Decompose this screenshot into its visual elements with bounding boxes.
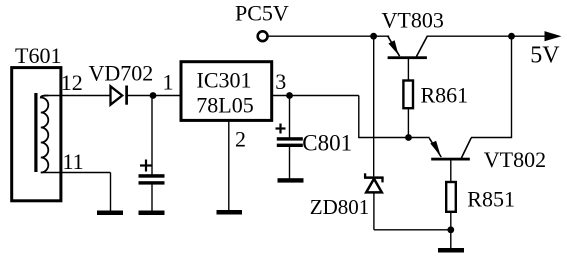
svg-text:R851: R851: [467, 186, 515, 211]
svg-text:12: 12: [61, 70, 83, 95]
svg-text:11: 11: [63, 149, 84, 174]
svg-text:VT802: VT802: [484, 147, 546, 172]
svg-text:ZD801: ZD801: [310, 195, 370, 219]
svg-text:T601: T601: [15, 43, 61, 68]
svg-text:IC301: IC301: [197, 67, 252, 92]
svg-text:2: 2: [235, 126, 246, 151]
svg-text:C801: C801: [302, 131, 352, 156]
svg-text:VT803: VT803: [382, 8, 444, 33]
svg-text:3: 3: [275, 69, 286, 94]
svg-text:5V: 5V: [530, 43, 560, 69]
svg-text:R861: R861: [421, 83, 469, 108]
svg-text:1: 1: [163, 69, 174, 94]
svg-text:PC5V: PC5V: [235, 1, 289, 26]
svg-text:78L05: 78L05: [196, 92, 253, 117]
svg-text:VD702: VD702: [89, 60, 154, 85]
